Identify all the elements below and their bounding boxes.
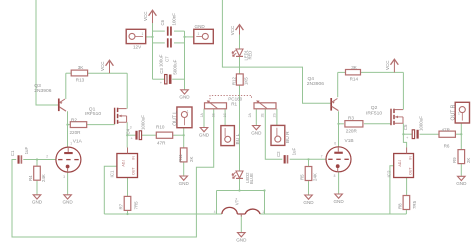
capacitor C6 100nF — [160, 13, 177, 36]
svg-text:1S: 1S — [223, 113, 227, 118]
wire VCC rail right channel (R14 bus) — [338, 71, 404, 73]
wire signal loop from volume pot to C1 — [12, 109, 214, 237]
svg-text:2A: 2A — [248, 113, 252, 118]
svg-text:GND: GND — [62, 200, 73, 205]
svg-text:1: 1 — [70, 142, 72, 146]
svg-text:100nF: 100nF — [172, 13, 177, 26]
svg-text:1E: 1E — [211, 113, 215, 118]
svg-text:1: 1 — [262, 210, 264, 214]
svg-text:24K: 24K — [313, 173, 318, 181]
svg-text:R3: R3 — [348, 115, 354, 120]
wire IC1 adj — [104, 166, 117, 214]
svg-text:GND: GND — [179, 181, 190, 186]
svg-text:7: 7 — [321, 154, 323, 158]
wire VCC to cap bank rail — [152, 23, 154, 79]
svg-text:6: 6 — [334, 141, 336, 145]
wire source to C5 — [402, 133, 412, 135]
wire C4 to R10 — [142, 134, 157, 136]
svg-text:IC1: IC1 — [110, 170, 115, 178]
resistor R4 24K — [28, 166, 46, 182]
wire IC2 adj — [390, 166, 394, 214]
jack BU R input right — [271, 125, 291, 145]
wire Q4 emitter to R14 — [337, 72, 339, 97]
ground symbol below R11 — [179, 176, 190, 186]
connector GND supply — [194, 24, 214, 44]
svg-text:220R: 220R — [346, 129, 358, 134]
svg-text:2K: 2K — [466, 158, 471, 163]
svg-text:OUT R: OUT R — [450, 104, 456, 120]
svg-text:V1B: V1B — [345, 138, 354, 144]
svg-text:R11: R11 — [178, 154, 183, 162]
regulator IC2 LM317 — [386, 148, 413, 178]
jack BU L input left — [221, 126, 241, 146]
wire heater supply bus left — [104, 213, 222, 215]
resistor R2 220R — [70, 118, 87, 135]
svg-text:5000uF: 5000uF — [173, 59, 178, 74]
wire LED1 to R12 — [239, 57, 241, 74]
wire V1A grid input — [23, 159, 56, 161]
resistor R13 3K — [71, 65, 87, 83]
wire Q2 source down to IC2 — [403, 123, 406, 147]
svg-text:R1: R1 — [231, 101, 237, 106]
ground symbol pot2 — [251, 126, 262, 136]
connector X1 12V supply — [126, 29, 146, 49]
svg-text:IRF510: IRF510 — [366, 110, 382, 116]
svg-text:R2: R2 — [71, 118, 77, 123]
svg-text:7R5: 7R5 — [133, 201, 138, 210]
svg-text:R14: R14 — [350, 76, 359, 81]
svg-text:GND: GND — [236, 237, 247, 242]
wire R4 to ground — [36, 180, 38, 195]
ground symbol power section — [179, 90, 190, 100]
svg-text:VCC: VCC — [100, 61, 105, 71]
svg-text:1uF: 1uF — [24, 147, 29, 155]
regulator IC1 LM317 — [110, 148, 138, 178]
wire 12V connector pin — [146, 36, 154, 38]
wire C7 right — [174, 42, 185, 44]
svg-text:1A: 1A — [200, 113, 204, 118]
svg-text:2N3906: 2N3906 — [34, 88, 51, 94]
wire node plate/R3 junction — [337, 123, 344, 125]
wire Q4 collector to V1B plate — [338, 111, 340, 147]
svg-text:C1: C1 — [10, 150, 15, 156]
wire feedback net left (to Q3 base) — [36, 0, 59, 105]
svg-text:GND: GND — [456, 181, 467, 186]
svg-text:VT*: VT* — [235, 198, 240, 206]
supply symbol VCC LED chain — [230, 25, 243, 36]
svg-text:ADJ: ADJ — [398, 160, 402, 167]
wire heater left drop — [216, 191, 218, 215]
svg-text:8: 8 — [334, 174, 336, 178]
wire output node to R9 — [460, 134, 462, 149]
svg-text:BU R: BU R — [285, 131, 291, 143]
capacitor C4 1000uF — [125, 115, 145, 141]
ground symbol below R5 — [303, 195, 314, 205]
svg-text:GND: GND — [333, 199, 344, 204]
svg-text:47R: 47R — [442, 127, 451, 132]
svg-text:220R: 220R — [70, 130, 82, 135]
svg-text:V1A: V1A — [73, 138, 83, 144]
svg-text:3K: 3K — [78, 65, 85, 70]
wire R8 to heater bus — [405, 210, 407, 215]
svg-text:R8: R8 — [397, 203, 402, 209]
tube triode V1A — [46, 138, 82, 179]
svg-text:VCC: VCC — [385, 60, 390, 70]
svg-text:BU L: BU L — [235, 133, 241, 144]
svg-text:3: 3 — [130, 125, 132, 129]
wire grid to R5 — [307, 158, 309, 166]
svg-text:1: 1 — [187, 110, 189, 114]
svg-text:C3: C3 — [159, 68, 164, 74]
resistor R14 3K — [346, 65, 361, 81]
wire LED2 to heater line — [239, 179, 241, 191]
wire C6 right — [174, 30, 185, 32]
svg-text:GND: GND — [195, 24, 206, 29]
capacitor C2 1uF — [276, 148, 296, 164]
wire V1A cathode to ground — [67, 172, 69, 195]
svg-text:3: 3 — [63, 175, 65, 179]
svg-text:1uF: 1uF — [291, 148, 296, 156]
wire output node to OUT L jack — [183, 128, 185, 136]
wire C3 right — [172, 78, 184, 80]
svg-text:IN: IN — [408, 156, 412, 160]
resistor R12 1K5 — [231, 74, 248, 85]
wire IC1 out to R7 — [127, 178, 129, 197]
svg-text:12V: 12V — [133, 44, 142, 49]
wire heater top line — [217, 189, 265, 191]
svg-text:1: 1 — [142, 32, 144, 36]
svg-text:OUT L: OUT L — [173, 111, 179, 126]
wire R11 to ground — [183, 162, 185, 176]
svg-text:C4: C4 — [125, 128, 130, 134]
svg-text:2N3906: 2N3906 — [307, 81, 324, 87]
svg-text:VCC: VCC — [230, 25, 235, 35]
wire Q2 drain to VCC bus — [402, 72, 404, 109]
wire source to C4 — [126, 134, 136, 136]
wire grid to R4 — [36, 158, 38, 166]
resistor R3 220R — [345, 115, 363, 133]
supply symbol VCC power section — [143, 10, 156, 23]
wire pot2 S to jack — [276, 109, 278, 126]
transistor Q4 2N3906 — [307, 76, 339, 111]
svg-text:1K5: 1K5 — [244, 77, 249, 85]
wire heater mid drop — [263, 189, 265, 214]
svg-text:IRF510: IRF510 — [85, 111, 101, 117]
jack OUT L — [173, 107, 192, 128]
svg-text:R7: R7 — [119, 203, 124, 209]
svg-text:R10: R10 — [156, 125, 165, 130]
wire C3 left — [153, 78, 165, 80]
svg-text:RED: RED — [248, 51, 253, 60]
wire output node to OUT R jack — [460, 123, 462, 135]
transistor Q1 IRF510 MOSFET — [85, 106, 132, 129]
svg-text:1: 1 — [458, 112, 460, 116]
ground symbol below R9 — [456, 176, 467, 186]
wire R9 to ground — [460, 164, 462, 177]
svg-text:2E: 2E — [260, 113, 264, 118]
svg-text:C7: C7 — [165, 56, 170, 62]
capacitor C5 1000uF — [403, 116, 424, 140]
svg-text:OUT: OUT — [132, 167, 136, 175]
capacitor C1 1uF — [10, 147, 29, 164]
tube triode V1B — [321, 138, 354, 178]
wire GND connector pin — [183, 36, 193, 38]
svg-text:IN: IN — [132, 156, 136, 160]
wire C5 to R6 — [420, 133, 439, 135]
wire Q3 emitter to R13 — [65, 73, 67, 99]
wire R3 to Q2 gate — [364, 123, 391, 125]
svg-text:24K: 24K — [41, 174, 46, 182]
jack OUT R — [450, 102, 469, 123]
wire Q1 source down to IC1 — [126, 122, 128, 147]
diode LED2 BLUE — [232, 171, 254, 184]
svg-text:C6: C6 — [160, 19, 165, 25]
wire R12 to LED2 — [239, 85, 241, 171]
wire VCC rail left channel (R13 bus) — [66, 72, 127, 74]
svg-text:R9: R9 — [452, 157, 457, 163]
ground symbol below V1A cathode — [62, 195, 73, 205]
svg-text:C5: C5 — [403, 124, 408, 130]
resistor R8 7R5 — [397, 196, 417, 210]
ground symbol heater center tap — [236, 233, 247, 243]
svg-text:1000uF: 1000uF — [141, 115, 146, 130]
wire VCC arrow to LED1 — [239, 35, 241, 49]
svg-text:2K: 2K — [189, 157, 194, 162]
wire V1B cathode to ground — [338, 172, 340, 194]
svg-text:BLUE: BLUE — [249, 173, 254, 184]
resistor R6 47R — [439, 127, 455, 148]
capacitor C3 5000uF — [159, 59, 178, 85]
svg-text:100uF: 100uF — [158, 54, 163, 67]
transistor Q2 IRF510 MOSFET — [366, 105, 403, 125]
ground symbol pot1 — [199, 128, 210, 138]
svg-text:2S: 2S — [272, 113, 276, 118]
wire heater center tap to ground — [240, 215, 242, 233]
heater VT* coils — [214, 198, 265, 217]
svg-text:R13: R13 — [76, 78, 85, 83]
svg-text:4: 4 — [214, 210, 216, 214]
wire C2 to V1B grid — [290, 158, 326, 160]
svg-text:2: 2 — [46, 155, 48, 159]
wire heater supply bus right — [260, 213, 406, 215]
wire C7 left — [153, 42, 165, 44]
supply symbol VCC right channel — [385, 59, 398, 72]
resistor R11 2K — [178, 148, 194, 162]
wire R10 to output node — [173, 134, 184, 136]
wire Q1 drain to VCC bus — [126, 73, 128, 108]
svg-text:7R5: 7R5 — [412, 200, 417, 209]
svg-text:1000uF: 1000uF — [418, 116, 423, 131]
svg-text:R4: R4 — [28, 175, 33, 181]
wire R6 to output node right — [455, 133, 461, 135]
svg-text:GND: GND — [32, 200, 43, 205]
wire ground rail right of cap bank — [184, 31, 186, 90]
svg-text:ADJ: ADJ — [121, 160, 125, 167]
svg-text:GND: GND — [199, 132, 210, 137]
ground symbol below V1B cathode — [333, 194, 344, 204]
potentiometer R1 gang line — [210, 95, 252, 106]
resistor R7 7R5 — [119, 196, 139, 210]
svg-text:Q2: Q2 — [371, 105, 378, 111]
wire pot1 A to ground — [203, 109, 205, 128]
wire feedback net right (to Q4 base) — [222, 0, 331, 103]
wire node plate/R2 junction — [66, 124, 70, 126]
potentiometer R1 gang 1 — [200, 100, 227, 117]
svg-text:GND: GND — [251, 130, 262, 135]
svg-text:OUT: OUT — [408, 167, 412, 175]
wire Q3 collector to V1A plate — [67, 111, 69, 147]
wire IC2 out to R8 — [406, 178, 408, 196]
wire C6 left — [153, 30, 165, 32]
resistor R10 47R — [156, 125, 173, 146]
wire pot2 A to ground — [255, 109, 257, 126]
wire R2 to Q1 gate — [87, 124, 115, 126]
wire R7 to heater bus — [126, 210, 128, 215]
potentiometer R1 gang 2 — [248, 100, 277, 117]
supply symbol VCC left channel — [100, 60, 113, 73]
wire output node to R11 — [183, 135, 185, 148]
svg-text:1: 1 — [198, 32, 200, 36]
svg-text:R5: R5 — [299, 174, 304, 180]
capacitor C7 100uF — [158, 38, 171, 67]
svg-text:R12: R12 — [231, 76, 236, 85]
wire pot2 E to C2 — [265, 109, 282, 160]
transistor Q3 2N3906 — [34, 83, 66, 111]
resistor R9 2K — [452, 150, 471, 164]
wire R5 to ground — [308, 181, 310, 196]
svg-text:47R: 47R — [157, 140, 166, 145]
svg-text:GND: GND — [179, 95, 190, 100]
wire pot1 S to jack — [224, 109, 226, 126]
svg-text:R6: R6 — [444, 143, 450, 148]
svg-text:IC2: IC2 — [386, 170, 391, 178]
svg-text:GND: GND — [303, 200, 314, 205]
diode LED1 RED — [232, 49, 253, 61]
svg-text:VCC: VCC — [143, 11, 148, 21]
ground symbol below R4 — [32, 195, 43, 205]
svg-text:3K: 3K — [351, 65, 358, 70]
svg-text:C2: C2 — [276, 151, 281, 157]
resistor R5 24K — [299, 167, 317, 182]
